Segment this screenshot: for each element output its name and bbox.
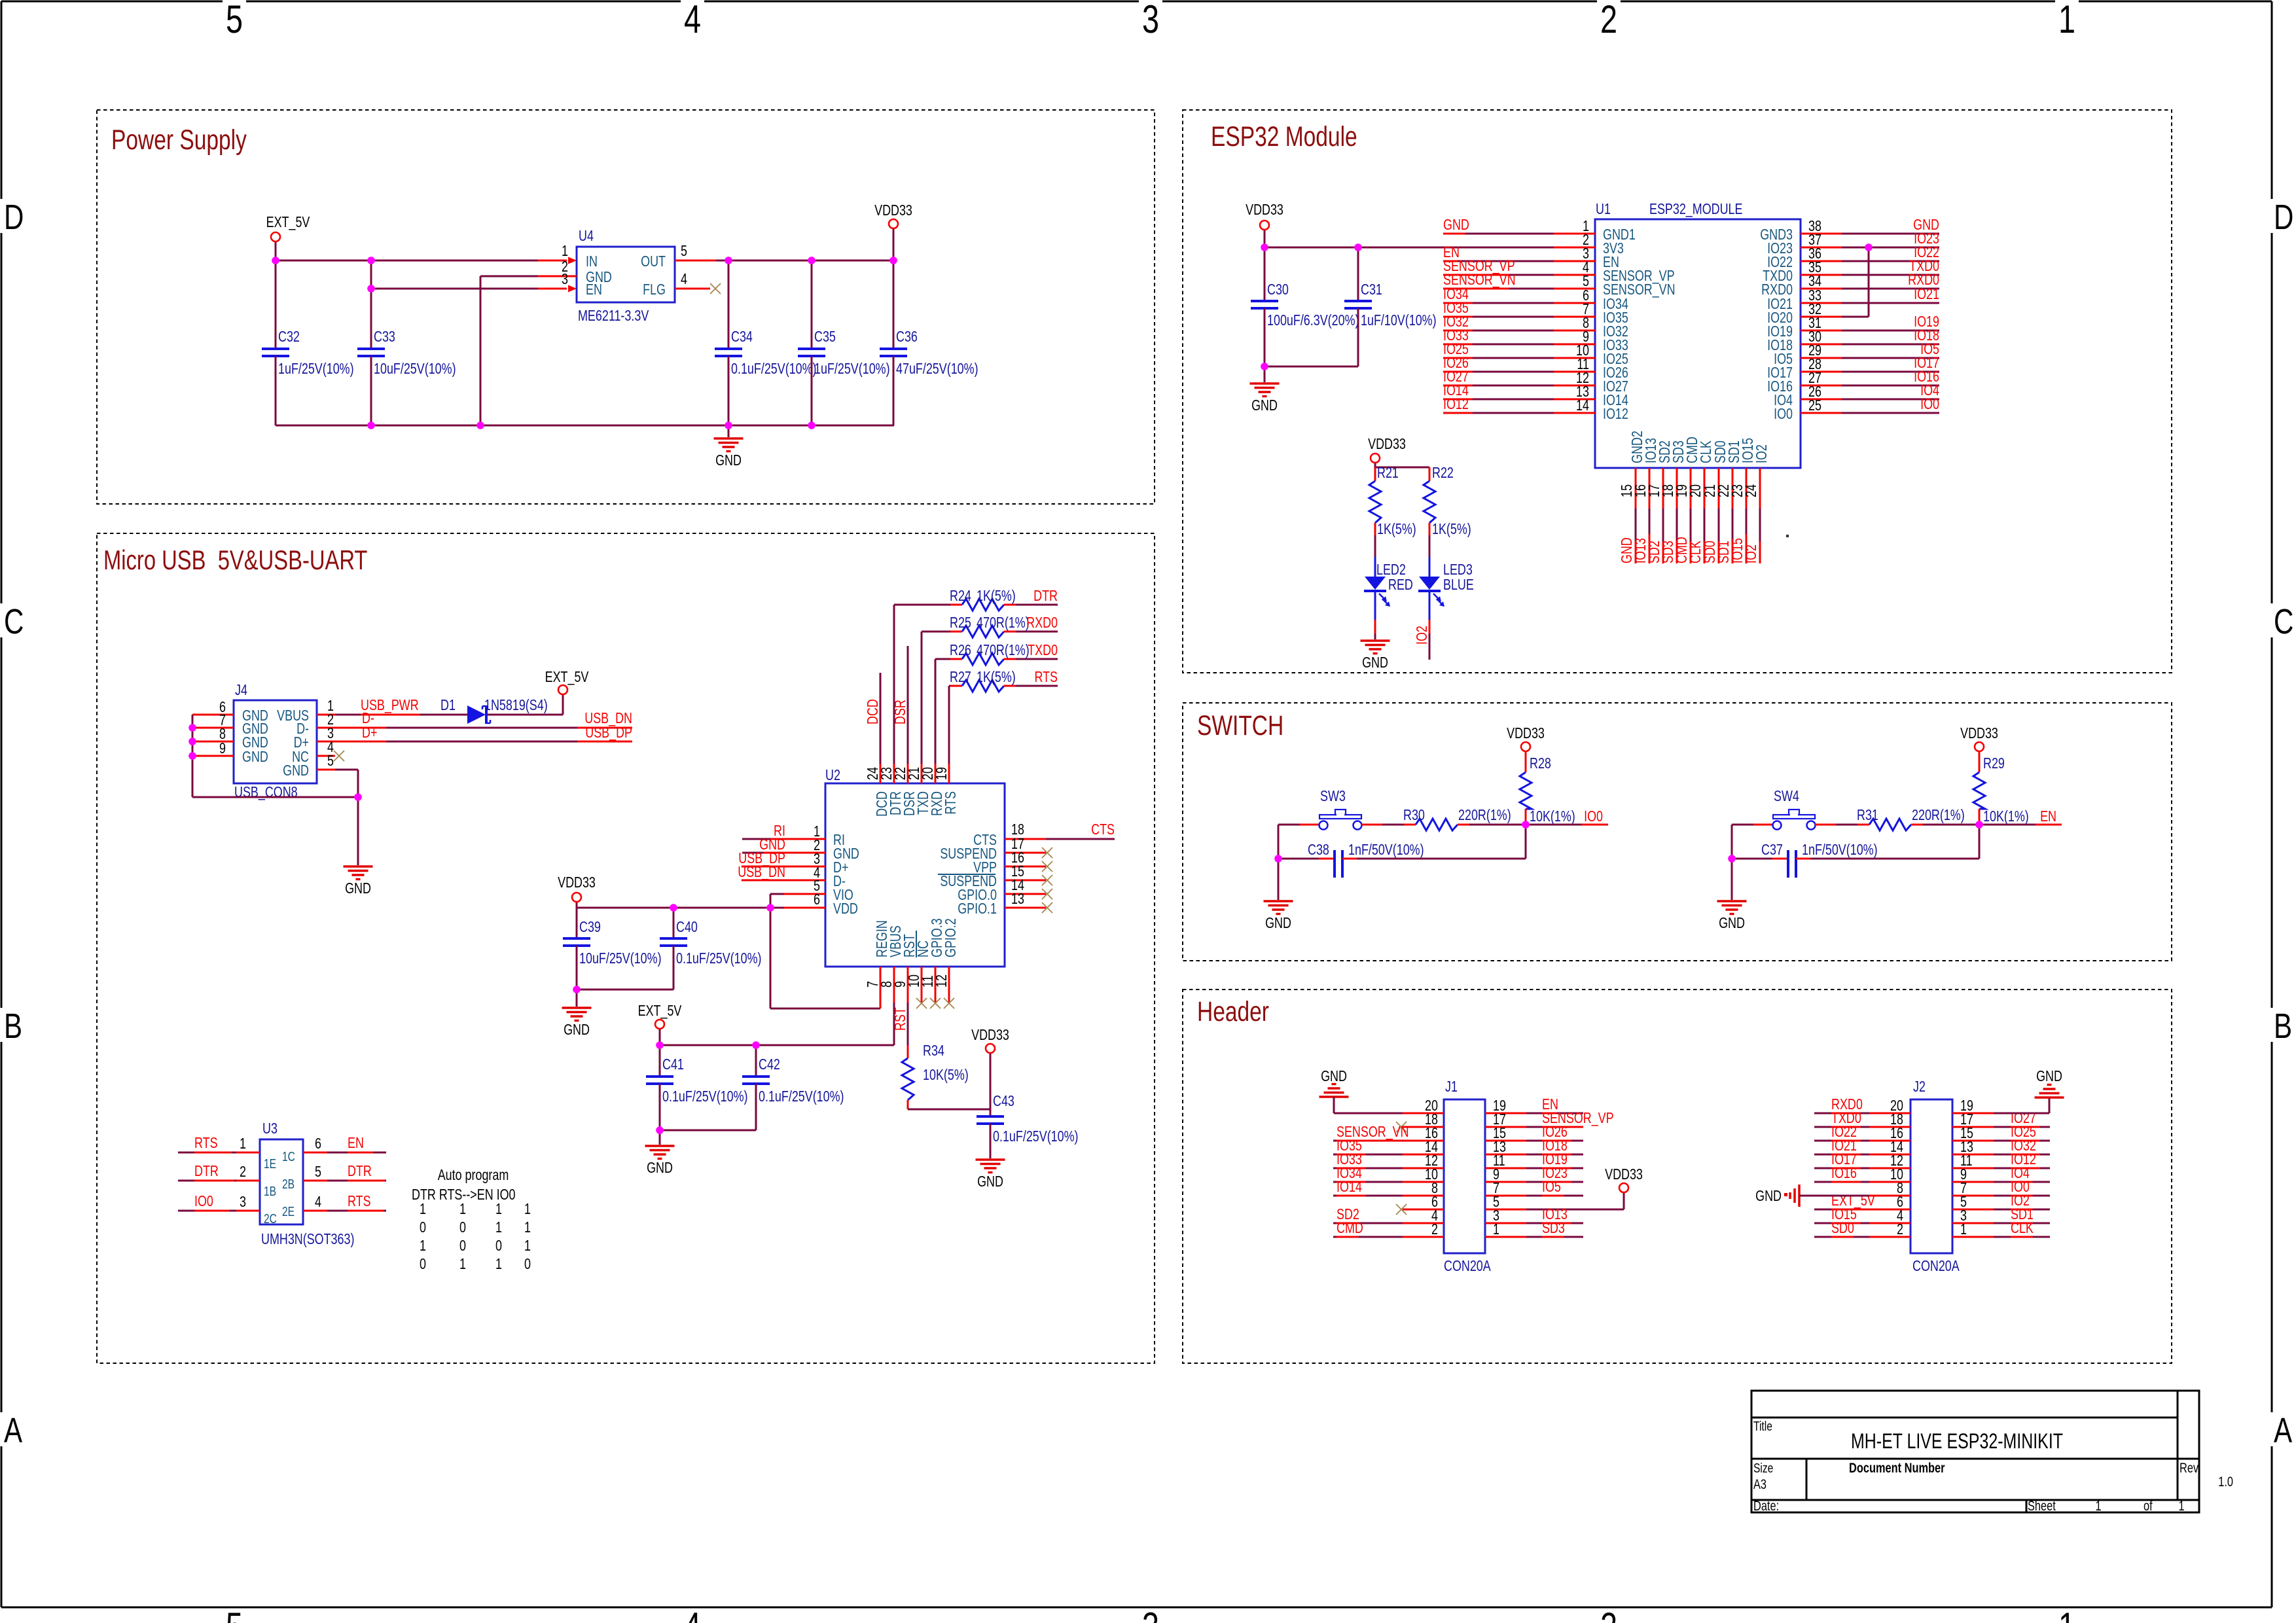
svg-text:GPIO.1: GPIO.1: [958, 901, 997, 918]
svg-text:SD0: SD0: [1831, 1220, 1854, 1237]
svg-text:1: 1: [495, 1256, 502, 1273]
junction C39 gnd: [573, 986, 581, 993]
svg-text:D: D: [4, 198, 24, 237]
power flag VDD33 (SW3): [1521, 742, 1530, 751]
U1 bottom wires with rotated net labels: [1635, 508, 1637, 563]
svg-text:SW3: SW3: [1320, 788, 1346, 805]
U2 RST overline pin9: [916, 931, 917, 957]
svg-text:1uF/10V(10%): 1uF/10V(10%): [1361, 312, 1437, 329]
power flag VDD33 (usb area): [576, 902, 578, 908]
wire CTS with net label: [1046, 838, 1115, 840]
svg-text:Power Supply: Power Supply: [111, 124, 247, 156]
wire R34 to C43: [908, 1109, 990, 1111]
U3 pin3 IO0: [236, 1210, 260, 1212]
svg-text:VDD: VDD: [833, 901, 858, 918]
junction EN tap: [367, 285, 375, 293]
wire U4 OUT rail to VDD33: [716, 260, 893, 262]
resistor R31 220R: [1857, 824, 1869, 826]
svg-text:C34: C34: [731, 329, 753, 346]
svg-text:R29: R29: [1983, 755, 2005, 772]
capacitor C34: [728, 260, 730, 349]
wire SW4 row: [1732, 824, 1753, 826]
svg-text:DTR: DTR: [1033, 588, 1058, 605]
svg-text:GND: GND: [242, 749, 268, 766]
stray dot artifact: [1786, 535, 1789, 537]
svg-text:VDD33: VDD33: [1246, 202, 1283, 219]
capacitor C42: [755, 1045, 757, 1077]
svg-text:1: 1: [459, 1256, 466, 1273]
U1 left pins with numbers and net labels: [1554, 233, 1595, 235]
svg-text:1E: 1E: [264, 1156, 276, 1171]
svg-text:3: 3: [1142, 1605, 1159, 1623]
U4 pin 4 stub FLG with no-connect: [675, 288, 710, 290]
wire U4 GND pin2 to ground rail: [480, 276, 538, 277]
resistor R29 10K pull-up: [1979, 752, 1981, 772]
junction VDD rail at C40: [670, 904, 677, 912]
svg-text:GND: GND: [1265, 915, 1291, 932]
svg-text:EXT_5V: EXT_5V: [266, 214, 310, 231]
svg-text:CTS: CTS: [1091, 821, 1115, 838]
svg-text:3: 3: [1142, 0, 1159, 41]
svg-text:C35: C35: [814, 329, 836, 346]
svg-text:GND: GND: [647, 1160, 673, 1177]
svg-text:220R(1%): 220R(1%): [1458, 807, 1511, 824]
resistor R24 1K with net label DTR: [950, 604, 962, 606]
svg-text:GND: GND: [715, 452, 742, 469]
svg-text:GND: GND: [1443, 217, 1469, 234]
svg-text:J2: J2: [1913, 1079, 1926, 1096]
wire DSR dangling with rotated label: [907, 646, 909, 764]
svg-text:EXT_5V: EXT_5V: [638, 1003, 682, 1020]
svg-text:B: B: [4, 1007, 22, 1046]
section box Power Supply: [97, 110, 1155, 504]
svg-text:R21: R21: [1377, 465, 1399, 482]
svg-text:0.1uF/25V(10%): 0.1uF/25V(10%): [759, 1088, 844, 1105]
svg-text:C30: C30: [1267, 281, 1289, 298]
svg-text:IO0: IO0: [1584, 808, 1603, 825]
svg-text:1: 1: [524, 1201, 531, 1218]
svg-text:GND: GND: [2036, 1068, 2062, 1085]
svg-text:VDD33: VDD33: [558, 874, 596, 891]
svg-text:IO21: IO21: [1914, 286, 1939, 303]
J1 right pins: [1485, 1113, 1526, 1115]
junction VDD rail at VIO riser: [766, 904, 774, 912]
junction dot: [188, 724, 196, 732]
svg-text:CON20A: CON20A: [1444, 1258, 1491, 1275]
svg-text:CMD: CMD: [1336, 1220, 1363, 1237]
svg-text:OUT: OUT: [641, 253, 666, 270]
J4 pin4 NC stub with no-connect: [317, 755, 335, 757]
junction gnd rail U4-gnd: [476, 421, 484, 429]
svg-text:Header: Header: [1197, 996, 1269, 1027]
svg-text:1C: 1C: [282, 1149, 295, 1164]
U1 right pins with numbers and net labels: [1801, 233, 1842, 235]
U2 pin5 VIO stub: [770, 893, 825, 895]
svg-text:EXT_5V: EXT_5V: [545, 669, 589, 686]
svg-text:1: 1: [1493, 1221, 1499, 1238]
svg-text:5: 5: [226, 1605, 243, 1623]
junction EXT_5V at C41: [656, 1041, 664, 1049]
svg-text:RXD0: RXD0: [1026, 615, 1058, 632]
svg-text:MH-ET LIVE ESP32-MINIKIT: MH-ET LIVE ESP32-MINIKIT: [1851, 1430, 2063, 1454]
U2 right stubs and no-connects: [1005, 838, 1046, 840]
svg-text:Sheet: Sheet: [2028, 1498, 2056, 1513]
wire RTS riser to R27: [948, 686, 950, 764]
svg-text:D+: D+: [362, 724, 377, 741]
svg-text:VDD33: VDD33: [874, 202, 912, 219]
svg-text:U4: U4: [579, 228, 594, 245]
net label USB_DP: [577, 741, 632, 743]
svg-text:C38: C38: [1308, 842, 1329, 859]
svg-text:R28: R28: [1530, 755, 1551, 772]
page border frame: [1, 1, 2272, 3]
svg-text:12: 12: [933, 974, 950, 988]
svg-text:IO12: IO12: [1443, 396, 1469, 413]
U2 pin6 VDD stub: [784, 907, 825, 909]
led LED3 BLUE: [1429, 535, 1431, 557]
wire VDD33 rail to U2 VDD/VIO: [577, 907, 784, 909]
svg-text:U2: U2: [825, 767, 840, 784]
J4 pin1 VBUS stub: [317, 714, 335, 716]
ground symbol C39/C40: [576, 990, 578, 1007]
junction gnd rail C35: [808, 421, 816, 429]
wire SW3 row: [1278, 824, 1300, 826]
svg-text:UMH3N(SOT363): UMH3N(SOT363): [261, 1231, 354, 1248]
svg-text:ME6211-3.3V: ME6211-3.3V: [578, 308, 649, 325]
wire SW3 ground leg: [1278, 825, 1280, 900]
svg-text:10uF/25V(10%): 10uF/25V(10%): [579, 950, 662, 967]
junction on EXT_5V rail at C32: [272, 257, 279, 264]
svg-text:1: 1: [240, 1135, 246, 1152]
J4 left pin stubs 6-9: [192, 714, 234, 716]
capacitor C33: [370, 260, 372, 349]
power flag VDD33 (SW4): [1975, 742, 1984, 751]
wire J4 pin5 to ground: [335, 769, 358, 771]
no-connect marks U2 pins 10 11 12: [916, 998, 927, 1008]
svg-text:GND: GND: [977, 1173, 1003, 1190]
ground symbol C41/C42: [659, 1130, 661, 1145]
svg-text:J1: J1: [1445, 1079, 1458, 1096]
svg-text:GND: GND: [1362, 654, 1388, 671]
svg-text:C41: C41: [662, 1056, 684, 1073]
ground symbol power supply: [728, 425, 730, 437]
svg-text:6: 6: [315, 1135, 321, 1152]
svg-text:4: 4: [684, 0, 701, 41]
wire VDD33 to C43: [990, 1054, 992, 1109]
ground symbol C43: [976, 1158, 1005, 1160]
power flag EXT_5V (usb): [558, 685, 567, 694]
wire REGIN pin7 to VDD riser: [880, 1003, 882, 1008]
usb connector J4 USB_CON8: [234, 700, 317, 783]
svg-text:Size: Size: [1753, 1461, 1773, 1475]
wire IO23 to IO20 pin32 tie: [1842, 316, 1869, 318]
wire SW4 ground leg: [1731, 825, 1733, 900]
capacitor C37 1nF: [1732, 858, 1772, 860]
junction OUT rail C35: [808, 257, 816, 264]
svg-text:BLUE: BLUE: [1443, 577, 1474, 594]
capacitor C38 1nF: [1278, 858, 1319, 860]
svg-text:1: 1: [420, 1238, 426, 1255]
junction C30 gnd: [1261, 363, 1268, 370]
capacitor C31: [1357, 247, 1359, 301]
svg-text:0: 0: [420, 1256, 426, 1273]
net label USB_DN: [577, 727, 632, 729]
svg-text:C: C: [4, 602, 24, 641]
svg-text:Micro USB 5V&USB-UART: Micro USB 5V&USB-UART: [103, 544, 367, 575]
svg-text:4: 4: [684, 1605, 701, 1623]
J4 ground bus on left: [192, 715, 194, 797]
zone row letters left: [0, 199, 4, 233]
J2 left pins: [1869, 1113, 1910, 1115]
svg-text:IO2: IO2: [1743, 544, 1760, 563]
svg-text:R30: R30: [1403, 807, 1425, 824]
svg-text:24: 24: [1743, 484, 1760, 497]
svg-text:6: 6: [814, 891, 820, 908]
net label RST rotated: [907, 1003, 909, 1045]
ground symbol LED2: [1361, 639, 1390, 641]
svg-text:VDD33: VDD33: [1960, 725, 1998, 742]
svg-text:GPIO.2: GPIO.2: [942, 918, 960, 957]
svg-text:470R(1%): 470R(1%): [977, 615, 1030, 632]
U1 bottom stubs pins 15-24: [1635, 468, 1637, 508]
net label D- tag: [335, 727, 386, 729]
svg-text:1uF/25V(10%): 1uF/25V(10%): [814, 361, 890, 378]
svg-text:RTS: RTS: [194, 1135, 218, 1152]
U4 pin 5 stub OUT: [675, 260, 716, 262]
svg-text:GND: GND: [283, 762, 309, 779]
svg-text:1K(5%): 1K(5%): [977, 588, 1016, 605]
svg-text:2: 2: [1431, 1221, 1438, 1238]
svg-text:EN: EN: [2040, 808, 2056, 825]
wire RXD riser to R25: [921, 632, 923, 764]
power flag VDD33 (esp32): [1260, 221, 1269, 230]
capacitor C39: [576, 908, 578, 938]
wire VBUS pin8 to EXT_5V rail: [893, 1003, 895, 1045]
J1 left pins: [1403, 1113, 1444, 1115]
J4 pin3 D+ stub: [317, 741, 335, 743]
power flag VDD33 (near R34): [986, 1044, 995, 1053]
svg-text:10uF/25V(10%): 10uF/25V(10%): [374, 361, 456, 378]
svg-text:4: 4: [315, 1194, 321, 1211]
power flag EXT_5V (lower): [655, 1020, 664, 1029]
resistor R30 220R: [1404, 824, 1416, 826]
svg-text:470R(1%): 470R(1%): [977, 642, 1030, 659]
junction pull-up SW4: [1975, 821, 1983, 829]
zone column numbers top: [223, 0, 246, 3]
net label USB_PWR: [335, 714, 467, 716]
power flag VDD33 (J1): [1619, 1183, 1628, 1192]
svg-text:1B: 1B: [264, 1184, 276, 1198]
svg-text:9: 9: [219, 740, 226, 757]
power flag VDD33 (led): [1371, 454, 1380, 463]
junction SW4 cap leg: [1728, 855, 1736, 863]
svg-text:DCD: DCD: [865, 699, 882, 724]
svg-text:J4: J4: [235, 682, 247, 699]
svg-text:1nF/50V(10%): 1nF/50V(10%): [1802, 842, 1878, 859]
wire LED2 cathode to ground: [1374, 620, 1376, 633]
U3 pin4 RTS: [303, 1210, 327, 1212]
svg-text:0: 0: [459, 1238, 466, 1255]
svg-text:RST: RST: [892, 1007, 909, 1031]
svg-text:1K(5%): 1K(5%): [1377, 521, 1416, 538]
resistor R27 1K with net label RTS: [950, 685, 962, 687]
svg-text:5: 5: [327, 753, 334, 770]
capacitor C30: [1264, 247, 1266, 301]
capacitor C32: [275, 260, 277, 349]
U3 pin6 EN: [303, 1152, 327, 1154]
wire C30/C31 ground link: [1265, 366, 1358, 368]
svg-text:RTS: RTS: [348, 1193, 371, 1210]
svg-text:B: B: [2274, 1007, 2292, 1046]
svg-text:A: A: [2274, 1411, 2293, 1450]
svg-text:IO2: IO2: [1753, 444, 1770, 463]
J2 right pins: [1952, 1113, 1994, 1115]
svg-text:Title: Title: [1753, 1419, 1772, 1433]
svg-text:0.1uF/25V(10%): 0.1uF/25V(10%): [676, 950, 762, 967]
junction SW3 cap leg: [1274, 855, 1282, 863]
ground symbol J4: [344, 865, 373, 867]
svg-text:R34: R34: [923, 1043, 944, 1060]
U2 SUSPEND overline pin15: [938, 874, 996, 875]
svg-text:1K(5%): 1K(5%): [1432, 521, 1471, 538]
svg-text:2E: 2E: [282, 1204, 295, 1219]
svg-text:R27: R27: [950, 669, 971, 686]
diode D1 1N5819(S4): [467, 705, 486, 724]
svg-text:0: 0: [459, 1219, 466, 1236]
svg-text:2: 2: [1897, 1221, 1903, 1238]
wire SW4 to R31: [1815, 824, 1836, 826]
svg-text:47uF/25V(10%): 47uF/25V(10%): [896, 361, 978, 378]
svg-text:1uF/25V(10%): 1uF/25V(10%): [278, 361, 354, 378]
wire R30 to junction: [1469, 824, 1526, 826]
junction rail at C30: [1261, 243, 1268, 251]
section box SWITCH: [1183, 703, 2172, 961]
svg-text:1.0: 1.0: [2218, 1474, 2233, 1489]
svg-text:VDD33: VDD33: [1507, 725, 1545, 742]
svg-text:2B: 2B: [282, 1177, 295, 1191]
junction dot: [188, 752, 196, 760]
svg-text:1nF/50V(10%): 1nF/50V(10%): [1348, 842, 1424, 859]
svg-text:2: 2: [1600, 0, 1617, 41]
net label IO0 (SW3): [1526, 824, 1608, 826]
svg-text:VDD33: VDD33: [971, 1027, 1009, 1044]
svg-text:5: 5: [315, 1164, 321, 1181]
svg-text:1: 1: [495, 1219, 502, 1236]
wire J2 pin19 to ground: [1994, 1113, 2049, 1115]
svg-text:USB_DN: USB_DN: [738, 864, 785, 881]
svg-text:R25: R25: [950, 615, 971, 632]
ground symbol SW4: [1717, 900, 1747, 902]
svg-text:VDD33: VDD33: [1605, 1166, 1643, 1183]
capacitor C41: [659, 1045, 661, 1077]
wire EXT_5V rail to U4 IN: [276, 260, 567, 262]
svg-text:C33: C33: [374, 329, 395, 346]
svg-text:R22: R22: [1432, 465, 1454, 482]
svg-text:C36: C36: [896, 329, 918, 346]
svg-text:SW4: SW4: [1774, 788, 1799, 805]
svg-text:USB_CON8: USB_CON8: [234, 784, 298, 801]
svg-text:3: 3: [240, 1194, 246, 1211]
svg-text:IO14: IO14: [1336, 1179, 1362, 1196]
svg-text:10K(5%): 10K(5%): [923, 1067, 969, 1084]
svg-text:USB_DP: USB_DP: [585, 724, 632, 741]
svg-text:U3: U3: [262, 1120, 278, 1137]
svg-text:RTS: RTS: [1034, 669, 1058, 686]
svg-text:RED: RED: [1388, 577, 1413, 594]
resistor R21 1K: [1374, 467, 1376, 481]
svg-text:IO12: IO12: [1603, 406, 1628, 423]
svg-text:220R(1%): 220R(1%): [1912, 807, 1965, 824]
svg-text:0: 0: [495, 1238, 502, 1255]
svg-text:ESP32_MODULE: ESP32_MODULE: [1649, 201, 1742, 218]
wire D1 cathode to EXT_5V: [488, 714, 563, 716]
transistor array U3 UMH3N: [260, 1139, 303, 1224]
svg-text:C31: C31: [1361, 281, 1382, 298]
resistor R22 1K: [1429, 467, 1431, 481]
wire USB_DN from J4 pin2: [335, 727, 632, 729]
svg-text:VDD33: VDD33: [1368, 436, 1406, 453]
svg-text:DTR: DTR: [348, 1163, 372, 1180]
svg-text:R31: R31: [1857, 807, 1878, 824]
svg-text:DTR: DTR: [194, 1163, 219, 1180]
capacitor C43: [990, 1109, 992, 1116]
usb-uart bridge U2: [825, 783, 1005, 967]
title block frame: [1751, 1391, 2199, 1512]
svg-text:0: 0: [524, 1256, 531, 1273]
svg-text:GND: GND: [1321, 1068, 1347, 1085]
U3 pin1 RTS: [236, 1152, 260, 1154]
svg-text:TXD0: TXD0: [1028, 642, 1058, 659]
svg-text:0.1uF/25V(10%): 0.1uF/25V(10%): [993, 1128, 1079, 1145]
svg-text:EN: EN: [348, 1135, 364, 1152]
wire LED3 cathode IO2: [1429, 620, 1431, 633]
svg-text:0.1uF/25V(10%): 0.1uF/25V(10%): [662, 1088, 748, 1105]
svg-text:1: 1: [1960, 1221, 1967, 1238]
svg-text:1: 1: [459, 1201, 466, 1218]
svg-text:GND: GND: [564, 1022, 590, 1039]
wire DCD dangling with rotated label: [880, 673, 882, 764]
svg-text:C39: C39: [579, 919, 601, 936]
svg-text:SWITCH: SWITCH: [1197, 710, 1283, 741]
junction OUT rail C34: [725, 257, 732, 264]
junction gnd rail C34 / gnd symbol: [725, 421, 732, 429]
wire DTR riser to R24: [893, 605, 895, 764]
U3 pin5 DTR: [303, 1180, 327, 1182]
svg-text:2: 2: [1600, 1605, 1617, 1623]
header J1 CON20A: [1444, 1099, 1485, 1253]
svg-text:Auto program: Auto program: [438, 1167, 509, 1184]
wire C41/C42 ground link: [660, 1130, 756, 1132]
svg-text:IO5: IO5: [1542, 1179, 1561, 1196]
svg-text:GND: GND: [1719, 915, 1745, 932]
svg-text:GND: GND: [1251, 397, 1278, 414]
wire VDD33 rail to U1 3V3: [1265, 247, 1595, 249]
header J2 CON20A: [1910, 1099, 1952, 1253]
resistor R28 10K pull-up: [1525, 752, 1527, 772]
junction IO23 tie: [1865, 243, 1873, 251]
resistor R34 10K: [907, 1045, 909, 1058]
svg-text:3: 3: [562, 271, 568, 288]
J4 pin5 GND stub: [317, 769, 335, 771]
junction C41 gnd: [656, 1126, 664, 1134]
svg-text:C40: C40: [676, 919, 698, 936]
resistor R26 470R with net label TXD0: [950, 658, 962, 660]
svg-text:GND: GND: [1755, 1188, 1782, 1205]
svg-text:C43: C43: [993, 1093, 1014, 1110]
wire EN tap from C33 leg to U4 EN: [371, 288, 567, 290]
svg-text:14: 14: [1576, 397, 1589, 414]
junction EXT_5V at C42: [752, 1041, 760, 1049]
